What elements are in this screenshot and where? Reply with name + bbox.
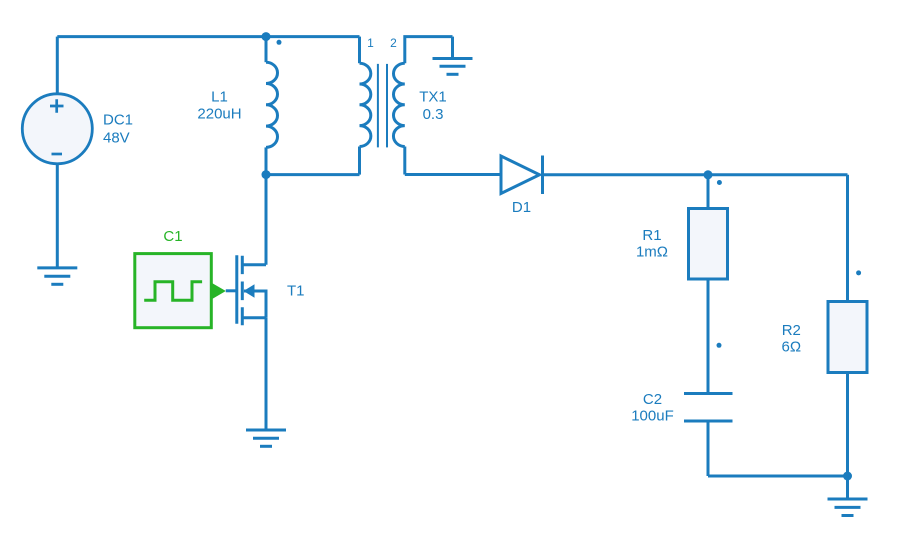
node marker near R1	[717, 180, 722, 185]
svg-text:TX1: TX1	[419, 89, 447, 106]
svg-text:2: 2	[390, 36, 397, 50]
transistor T1 (MOSFET)	[226, 255, 266, 325]
node marker near C2	[717, 343, 722, 348]
source C1 (pulse generator)	[135, 254, 226, 328]
svg-text:1: 1	[367, 36, 374, 50]
svg-text:1mΩ: 1mΩ	[636, 244, 668, 261]
label TX1 0.3	[419, 89, 447, 123]
resistor R2	[828, 302, 867, 477]
junction node at top rail / L1	[262, 32, 271, 41]
wire top rail from DC1 to transformer primary	[57, 35, 359, 38]
wire secondary bottom to diode	[405, 173, 501, 176]
label L1 220uH	[197, 89, 241, 123]
junction node at bottom ground rail	[843, 472, 852, 481]
transformer TX1	[360, 37, 453, 175]
wire DC1 top lead	[56, 37, 59, 94]
node marker near R2	[856, 270, 861, 275]
label C2 100uF	[631, 391, 674, 425]
svg-text:220uH: 220uH	[197, 105, 241, 122]
ground bottom right	[828, 476, 868, 516]
ground under T1	[246, 430, 286, 446]
resistor R1	[689, 175, 728, 394]
diode D1	[501, 156, 543, 195]
wire source lead to ground	[265, 318, 268, 430]
svg-text:R2: R2	[782, 322, 801, 339]
inductor L1	[266, 37, 278, 175]
wire bottom-left rail junction to transformer primary bottom	[266, 173, 360, 176]
junction node at R1 top	[704, 170, 713, 179]
svg-text:DC1: DC1	[103, 111, 133, 128]
svg-text:48V: 48V	[103, 129, 130, 146]
svg-text:C2: C2	[643, 391, 662, 408]
node marker near L1	[277, 40, 282, 45]
voltage source DC1	[22, 94, 92, 164]
svg-text:D1: D1	[512, 199, 531, 216]
wire diode to R2 top rail	[543, 173, 848, 176]
svg-text:L1: L1	[211, 89, 228, 106]
ground at transformer secondary top	[433, 37, 473, 75]
svg-text:T1: T1	[287, 283, 305, 300]
svg-text:100uF: 100uF	[631, 408, 674, 425]
label R1 1mOhm	[636, 227, 668, 261]
svg-text:R1: R1	[642, 227, 661, 244]
label DC1 48V	[103, 111, 133, 146]
wire R2 top lead	[846, 175, 849, 302]
svg-text:C1: C1	[163, 228, 182, 245]
label R2 6Ohm	[782, 322, 802, 356]
svg-text:0.3: 0.3	[423, 106, 444, 123]
ground under DC1	[37, 268, 77, 284]
junction node at bottom-left rail	[262, 170, 271, 179]
wire DC1 bottom lead	[56, 164, 59, 268]
wire drain lead from junction down to T1	[265, 175, 268, 265]
svg-text:6Ω: 6Ω	[782, 339, 802, 356]
wire bottom rail C2 to ground junction	[708, 475, 848, 478]
capacitor C2	[684, 394, 733, 477]
